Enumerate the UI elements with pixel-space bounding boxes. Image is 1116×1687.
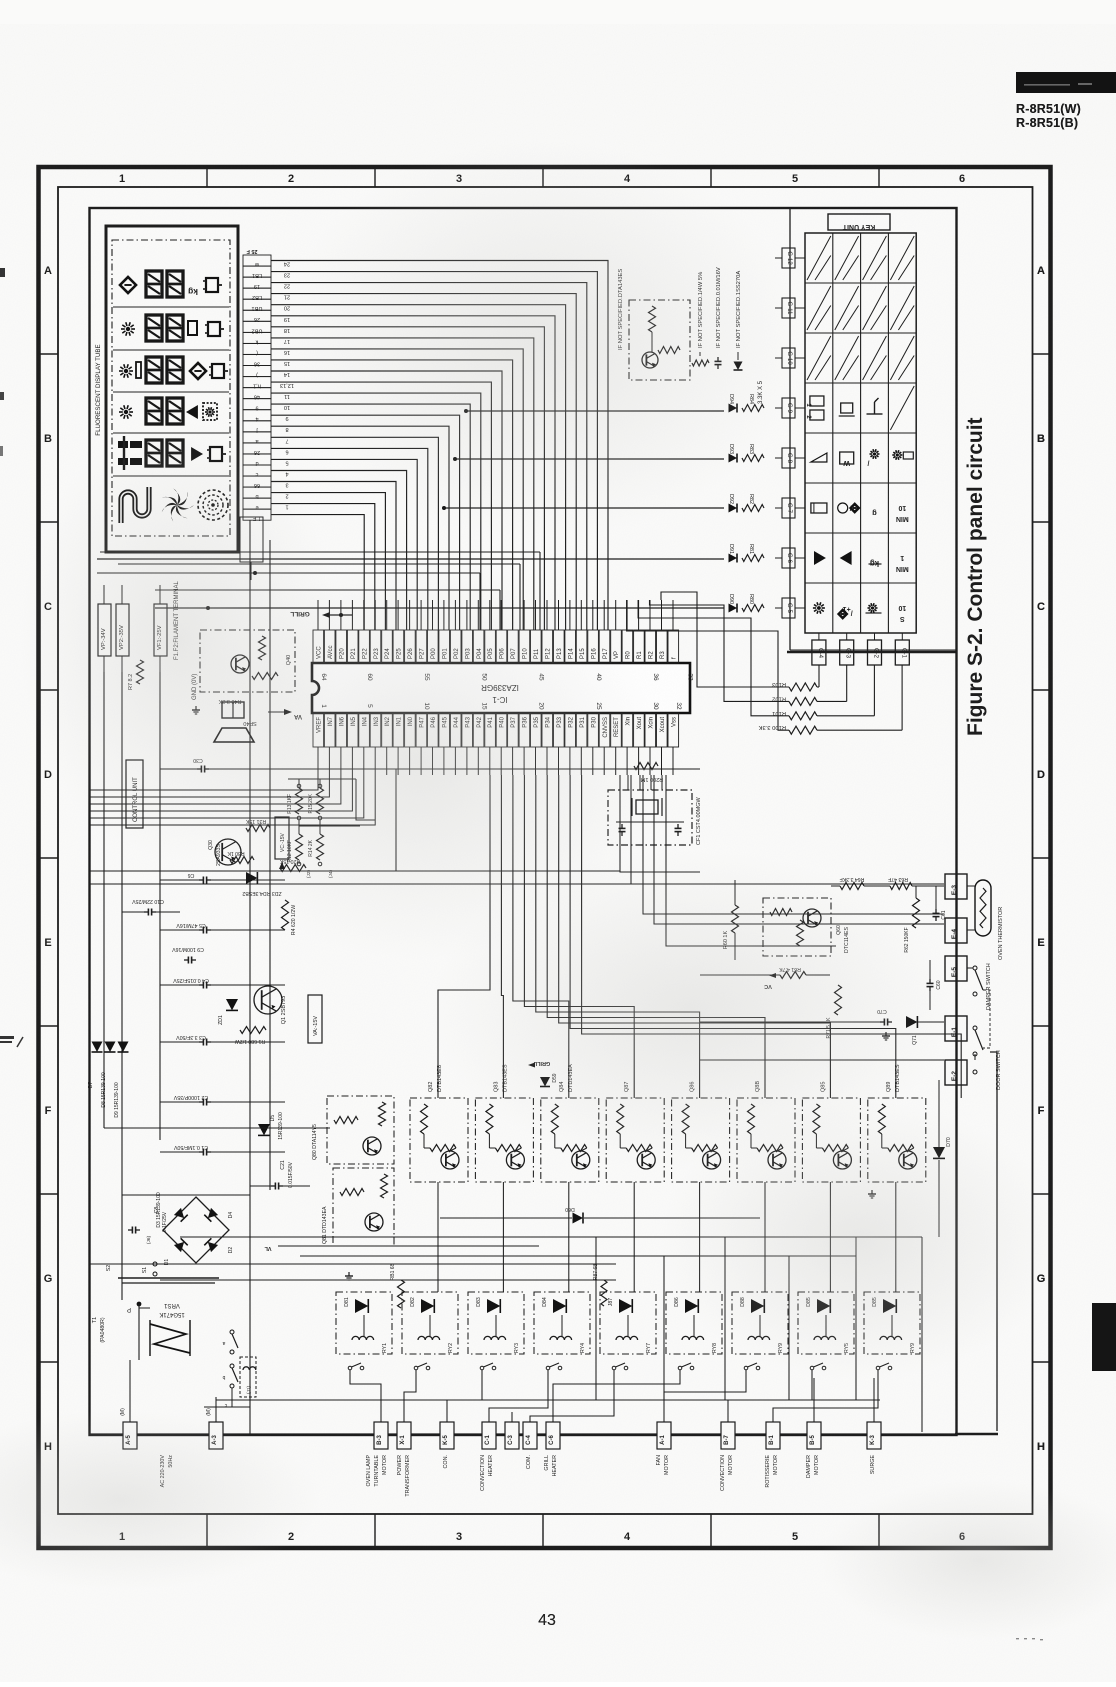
svg-text:R-8R51(B): R-8R51(B)	[1016, 116, 1078, 130]
svg-text:43: 43	[538, 1612, 556, 1629]
svg-text:B: B	[1037, 433, 1045, 445]
svg-text:F: F	[1038, 1105, 1045, 1117]
svg-text:R-8R51(W): R-8R51(W)	[1016, 102, 1081, 116]
svg-text:C: C	[1037, 601, 1045, 613]
svg-text:E: E	[1037, 937, 1044, 949]
svg-text:G: G	[1037, 1273, 1046, 1285]
svg-text:H: H	[1037, 1441, 1045, 1453]
svg-text:D: D	[1037, 769, 1045, 781]
svg-text:A: A	[1037, 265, 1045, 277]
